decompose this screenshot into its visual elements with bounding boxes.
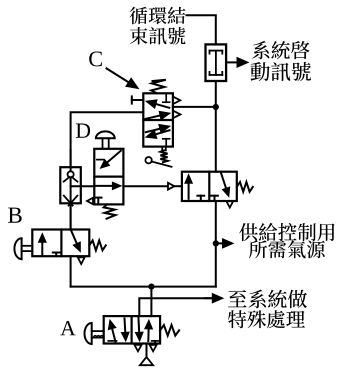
check valve flow arrow barbs — [64, 196, 73, 206]
label supply line2 所需氣源 — [249, 240, 325, 258]
wire left rail to valve C input — [71, 112, 144, 167]
label B — [8, 208, 22, 223]
label D — [76, 124, 90, 138]
relay valve return spring — [237, 182, 253, 192]
wire bus down to valve A port — [150, 287, 152, 317]
wire relay valve to supply node — [215, 201, 217, 287]
valve C exhaust ports — [173, 97, 180, 104]
valve A blocked ports — [108, 340, 116, 342]
valve D body (3/2 push-button valve) — [94, 149, 123, 205]
valve B flow arrow (open) — [41, 240, 43, 255]
wire cycle-end signal to pulse valve — [187, 15, 216, 44]
valve B exhaust — [78, 257, 85, 264]
check valve ball and seat — [70, 150, 72, 230]
label cycle-end signal line2 束訊號 — [130, 27, 186, 45]
valve D return spring (bottom) — [104, 204, 116, 218]
label C — [89, 51, 102, 66]
valve C return spring (top) — [151, 80, 166, 94]
relay valve flow arrow (open) — [188, 181, 190, 199]
relay valve blocked ports — [200, 196, 202, 201]
check valve body — [60, 167, 81, 203]
valve A flow arrows right box — [137, 317, 140, 335]
junction node on bus — [148, 284, 154, 290]
wire check valve to valve B inlet — [70, 203, 72, 229]
pilot wire valve D to relay valve — [123, 185, 168, 187]
relay valve closed path — [221, 172, 227, 191]
pulse valve (signal converter) body — [206, 44, 227, 81]
label cycle-end signal line1 循環結 — [130, 7, 186, 25]
valve A pressure source — [146, 344, 148, 358]
valve C pilot spring (bottom coil) — [161, 147, 163, 151]
check valve outlet wire to valve D — [71, 185, 95, 187]
valve D push button — [96, 131, 115, 138]
pointer arrow from label C to valve C pilot — [107, 68, 131, 83]
valve B push button — [14, 238, 21, 259]
valve C pilot port (plugged) — [131, 96, 133, 103]
valve B return spring — [89, 240, 106, 250]
valve C roller-lever actuator — [145, 157, 151, 163]
label supply line1 供給控制用 — [239, 223, 334, 241]
valve C flow arrows — [154, 103, 170, 108]
valve C blocked ports — [165, 93, 167, 102]
label system start signal line1 系統啓 — [252, 41, 309, 59]
valve A return spring — [160, 325, 179, 336]
valve D flow path (open) — [94, 185, 114, 187]
valve B blocked port — [55, 253, 57, 257]
valve D exhaust port — [87, 198, 93, 204]
arrow control air supply — [216, 242, 225, 244]
label system start signal line2 動訊號 — [251, 62, 311, 81]
valve B body (3/2 push-button valve) — [32, 230, 89, 257]
label special line1 至系統做 — [228, 290, 307, 309]
label A — [60, 321, 75, 335]
relay valve exhaust — [226, 201, 233, 207]
valve C body (2-position valve, vertical) — [143, 93, 173, 146]
valve B closed path — [71, 230, 78, 246]
wire bottom bus — [71, 286, 216, 288]
wire valve B outlet down to bus — [70, 256, 72, 286]
junction node: valve C output joins rail — [213, 104, 219, 110]
pulse valve piston — [210, 51, 223, 75]
valve A exhaust ports — [135, 345, 142, 351]
relay valve body (3/2 pilot valve) — [182, 172, 237, 201]
wire main rail from pulse valve down to pilot valve — [215, 81, 217, 172]
valve D closed-position path — [97, 159, 104, 161]
wire valve C output to rail — [173, 106, 216, 108]
junction node: control supply — [213, 240, 219, 246]
wire valve A port to special processing arrow — [139, 298, 211, 316]
valve A body (5/2 valve) — [104, 316, 160, 343]
valve A push button with spring — [85, 323, 92, 344]
arrow to system start signal — [226, 61, 240, 63]
label special line2 特殊處理 — [228, 310, 305, 328]
valve A flow arrows left box — [112, 327, 116, 342]
